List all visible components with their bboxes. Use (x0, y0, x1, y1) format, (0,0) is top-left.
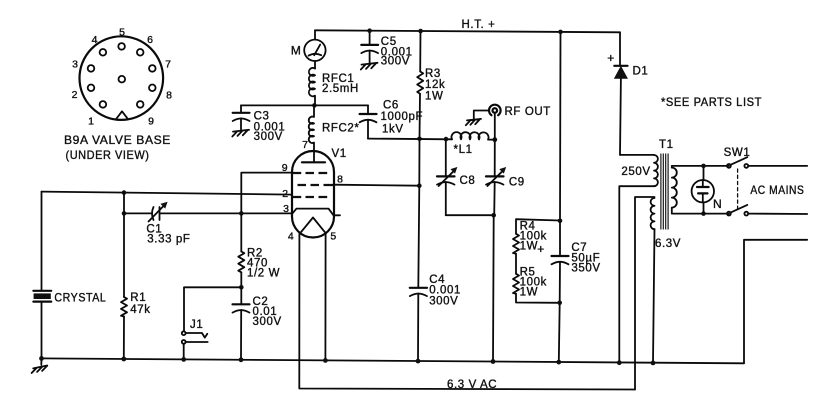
svg-text:RFC2*: RFC2* (322, 123, 360, 135)
wire crystal line to grid pin 2 (42, 192, 293, 195)
svg-text:J1: J1 (190, 319, 203, 331)
wire C7 bottom to ground rail (558, 303, 561, 362)
capacitor C3 (233, 105, 250, 129)
valve base pin holes 1-9 (88, 43, 156, 108)
trimmer capacitor C1 (149, 203, 167, 222)
choke RFC1 (309, 68, 315, 106)
svg-text:1000pF: 1000pF (381, 111, 424, 123)
junction rail at tank (491, 359, 496, 364)
wire H.T.+ top rail (315, 30, 620, 32)
svg-text:B9A VALVE BASE: B9A VALVE BASE (64, 133, 171, 147)
svg-text:*SEE PARTS LIST: *SEE PARTS LIST (661, 97, 762, 109)
junction pin 3 line at R2 (239, 211, 244, 216)
variable capacitor C9 (486, 140, 505, 216)
junction tank top left (444, 137, 449, 142)
svg-text:8: 8 (166, 90, 172, 102)
svg-text:C6: C6 (383, 100, 399, 112)
svg-text:(UNDER VIEW): (UNDER VIEW) (66, 148, 150, 162)
svg-text:4: 4 (92, 34, 98, 46)
wire tank bottom line (446, 214, 494, 216)
wire C1 line left segment (124, 212, 152, 214)
junction rail at J1 (181, 357, 186, 362)
svg-text:8: 8 (337, 173, 343, 185)
svg-text:3: 3 (72, 59, 78, 71)
junction tank line at R3 (417, 137, 422, 142)
junction R2 C2 J1 (239, 285, 244, 290)
valve V1 anode plate (302, 161, 325, 163)
electrolytic capacitor C7 (552, 221, 569, 303)
valve V1 cathode (292, 209, 340, 216)
junction tank top right (492, 137, 497, 142)
wire tank top line (368, 138, 452, 141)
wire anode node horizontal (241, 104, 368, 106)
svg-text:D1: D1 (633, 66, 649, 78)
ground symbol at rail left (32, 358, 48, 373)
wire heater pin 4 (299, 234, 635, 390)
switch SW1 pole 2 (727, 205, 807, 216)
ground below C3 (232, 130, 249, 137)
svg-text:1W: 1W (520, 241, 538, 253)
svg-text:1kV: 1kV (382, 123, 404, 135)
junction C1 line at R1 (122, 211, 127, 216)
wire C7 branch from H.T. rail (559, 32, 562, 221)
svg-text:7: 7 (302, 139, 308, 151)
valve base index notch (117, 111, 128, 118)
junction rail at C2 (239, 357, 244, 362)
svg-text:H.T. +: H.T. + (462, 19, 496, 31)
wire AC mains return (744, 240, 807, 363)
wire grid pin 3 line right of C1 (160, 212, 292, 214)
transformer T1 secondary 250V winding (619, 155, 658, 363)
resistor R3 (417, 31, 423, 139)
svg-text:N: N (713, 197, 722, 211)
svg-text:6: 6 (147, 34, 153, 46)
svg-text:M: M (291, 43, 302, 57)
ground at RF OUT (466, 119, 481, 125)
diode D1 (614, 66, 627, 155)
junction rail at 6.3V return (651, 361, 656, 366)
svg-text:12k: 12k (425, 79, 445, 91)
valve V1 heater filament (300, 218, 326, 234)
neon indicator N (692, 166, 714, 214)
junction neon bottom (701, 211, 706, 216)
svg-text:2: 2 (72, 89, 78, 101)
svg-text:5: 5 (119, 27, 125, 39)
junction tank bottom (491, 213, 496, 218)
svg-text:3.33 pF: 3.33 pF (147, 234, 190, 246)
wire H.T. rail corner to D1 (619, 32, 621, 66)
junction crystal line at R1 (122, 190, 127, 195)
valve V1 grid row 2 (pin 8) (298, 184, 335, 186)
crystal X1 (33, 192, 51, 359)
svg-text:1W: 1W (425, 90, 443, 102)
junction rail at R1 (121, 357, 126, 362)
svg-text:7: 7 (165, 59, 171, 71)
wire screen grid pin 8 to node (334, 185, 419, 186)
switch SW1 pole 1 (727, 157, 807, 168)
transformer T1 core (661, 154, 668, 230)
B9A valve base outline circle (80, 36, 164, 120)
svg-text:RF OUT: RF OUT (505, 106, 551, 118)
transformer T1 heater 6.3V winding (635, 197, 655, 390)
valve V1 grid row 3 (pin 2) (292, 196, 327, 198)
svg-text:6.3 V AC: 6.3 V AC (447, 379, 497, 391)
svg-text:350V: 350V (571, 263, 600, 275)
svg-text:T1: T1 (659, 139, 674, 151)
svg-text:AC MAINS: AC MAINS (750, 185, 804, 197)
junction C7 bottom (557, 301, 562, 306)
svg-text:4: 4 (288, 231, 294, 243)
svg-text:+: + (607, 51, 615, 65)
wire ground rail (42, 358, 745, 363)
ground below C5 (361, 63, 378, 70)
switch SW1 gang link dashed (737, 169, 739, 211)
svg-text:5: 5 (330, 231, 336, 243)
svg-text:V1: V1 (332, 148, 347, 160)
svg-text:300V: 300V (381, 55, 410, 67)
resistor R2 (238, 213, 244, 287)
svg-text:300V: 300V (429, 296, 458, 308)
wire heater pin 5 to ground rail (324, 234, 326, 361)
svg-text:300V: 300V (254, 131, 283, 143)
coil L1 (452, 132, 495, 140)
svg-text:C9: C9 (509, 176, 525, 188)
choke RFC2 (309, 105, 314, 162)
junction neon top (701, 164, 706, 169)
resistor R4 (513, 219, 560, 254)
svg-text:6.3V: 6.3V (655, 238, 681, 250)
resistor R1 (121, 193, 127, 359)
svg-text:1W: 1W (520, 287, 538, 299)
svg-text:9: 9 (148, 116, 154, 128)
capacitor C6 (360, 105, 377, 138)
valve V1 envelope (292, 151, 334, 238)
junction rail at C4 (416, 359, 421, 364)
junction C7 top (558, 219, 563, 224)
transformer T1 primary winding (672, 166, 729, 214)
junction rail at heater pin 5 (323, 358, 328, 363)
wire tank bottom to ground rail (492, 215, 495, 361)
svg-text:+: + (537, 242, 545, 256)
meter M (304, 30, 325, 68)
wire grid pin 9 (241, 173, 292, 214)
connector RF OUT (474, 105, 501, 140)
svg-text:C8: C8 (460, 175, 476, 187)
svg-text:*L1: *L1 (454, 144, 473, 156)
valve base centre spigot hole (119, 76, 126, 83)
junction screen grid node (417, 183, 422, 188)
resistor R5 (513, 254, 560, 303)
junction H.T. rail at C7 branch (558, 30, 563, 35)
junction anode node (312, 103, 317, 108)
valve V1 grid row 1 (pin 9) (292, 172, 327, 174)
junction rail at C7 (556, 360, 561, 365)
junction R3 top on H.T. rail (418, 29, 423, 34)
svg-text:1/2 W: 1/2 W (247, 268, 280, 280)
junction rail at 250V return (617, 360, 622, 365)
variable capacitor C8 (437, 139, 457, 215)
svg-text:CRYSTAL: CRYSTAL (54, 293, 106, 305)
svg-text:47k: 47k (130, 304, 150, 316)
key jack J1 (182, 287, 242, 359)
wire R3 to screen node (418, 139, 420, 186)
junction C5 on H.T. rail (367, 28, 372, 33)
svg-text:SW1: SW1 (724, 147, 751, 159)
svg-text:250V: 250V (621, 166, 650, 178)
junction rail at crystal (39, 356, 44, 361)
svg-text:300V: 300V (253, 316, 282, 328)
capacitor C4 (410, 288, 427, 361)
svg-text:R1: R1 (130, 292, 146, 304)
svg-text:1: 1 (88, 116, 94, 128)
capacitor C2 (233, 287, 250, 360)
wire screen node to C4 (418, 186, 419, 288)
svg-text:2.5mH: 2.5mH (322, 83, 359, 95)
capacitor C5 (361, 31, 378, 63)
